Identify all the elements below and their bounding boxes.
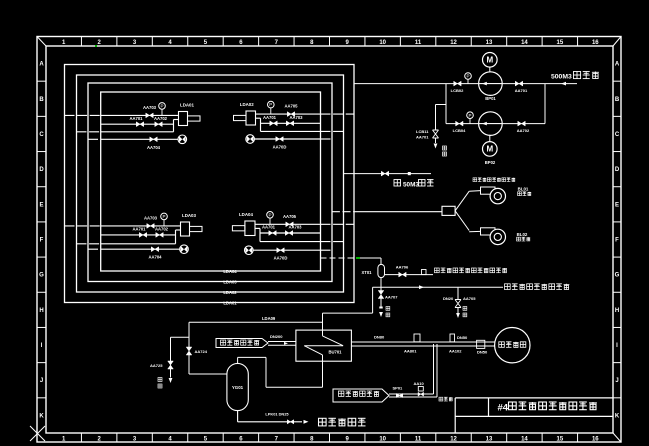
svg-text:P: P: [268, 212, 271, 217]
wire fuel pipe 1: [256, 113, 321, 115]
svg-text:BU701: BU701: [328, 350, 342, 355]
svg-text:G: G: [39, 273, 44, 279]
svg-text:14: 14: [521, 40, 528, 46]
flow arrow: [284, 342, 288, 345]
svg-text:10: 10: [379, 40, 386, 46]
valve AA7x2: [156, 233, 163, 238]
svg-text:11: 11: [415, 40, 422, 46]
pipe ring header LDA01 (outermost): [65, 65, 355, 303]
svg-text:P: P: [468, 113, 471, 118]
grid reference numbers top: [62, 37, 599, 47]
wire fuel pipe 1: [255, 223, 321, 225]
svg-text:F: F: [40, 238, 44, 244]
fan manifold: [442, 206, 455, 215]
wire ignition pipe 4: [254, 138, 321, 140]
valve AA7x2: [286, 121, 293, 126]
fan BL01: [481, 187, 496, 194]
flame igniter: [246, 135, 255, 144]
svg-text:LDA02: LDA02: [223, 290, 237, 295]
label drain header: [505, 284, 511, 290]
valve AA7x1: [270, 121, 277, 126]
burner LDA01: [179, 112, 188, 126]
wire igniter duct horizontal: [389, 393, 434, 395]
svg-text:AA724: AA724: [195, 349, 208, 354]
svg-text:16: 16: [592, 40, 599, 46]
burner group bottom-right: [232, 212, 354, 261]
wire fuel pipe 1: [65, 114, 102, 116]
svg-text:J: J: [40, 378, 43, 384]
label vent2: [463, 307, 467, 311]
reducer: [422, 270, 427, 275]
wire pump suction main: [354, 83, 577, 85]
junction tick: [408, 172, 411, 175]
pipe ring header LDA03: [88, 83, 332, 282]
valve AA7x3: [287, 112, 294, 117]
wire down branch: [188, 322, 190, 374]
wire into vessel: [189, 373, 227, 375]
svg-text:AA703: AA703: [288, 225, 302, 230]
pressure gauge: [268, 101, 275, 108]
svg-text:LCB04: LCB04: [453, 128, 466, 133]
wire hot air duct: [351, 341, 494, 343]
furnace box / ring header LDA04: [101, 92, 321, 271]
exchanger coil: [322, 330, 324, 336]
svg-text:P: P: [162, 214, 165, 219]
valve AA7x1: [269, 231, 276, 236]
flame igniter: [180, 245, 189, 254]
artifact green dash: [356, 257, 360, 259]
valve AA724 (vertical): [186, 347, 192, 355]
wire fuel pipe 2: [261, 122, 321, 124]
pressure gauge: [159, 103, 166, 110]
svg-text:DN20: DN20: [443, 296, 454, 301]
svg-text:H: H: [39, 308, 43, 314]
wire separator drain: [380, 278, 382, 288]
wire ignition pipe 4: [88, 248, 101, 250]
valve AA7x2: [285, 231, 292, 236]
valve LCB04: [456, 121, 463, 126]
svg-text:AA703: AA703: [289, 115, 303, 120]
svg-text:AA701: AA701: [263, 115, 277, 120]
svg-text:P: P: [160, 104, 163, 109]
valve AA705 branch (closed): [457, 287, 459, 299]
svg-text:SP01: SP01: [393, 386, 404, 391]
svg-text:AA102: AA102: [449, 349, 462, 354]
label igniter: [499, 342, 505, 348]
wire to separator: [360, 257, 381, 259]
wire fan Y split: [455, 191, 469, 211]
svg-text:C: C: [39, 132, 44, 138]
valve AA707 (vertical): [380, 287, 382, 291]
svg-text:M: M: [486, 145, 493, 154]
svg-text:AA705: AA705: [463, 296, 476, 301]
grid reference letters left: [37, 62, 46, 420]
svg-text:D: D: [39, 167, 44, 173]
svg-text:16: 16: [592, 437, 599, 443]
svg-text:15: 15: [557, 437, 564, 443]
svg-text:LDA04: LDA04: [223, 269, 237, 274]
valve AA701 pump1 out: [515, 81, 522, 86]
svg-text:LDA03: LDA03: [223, 280, 237, 285]
wire vessel drain: [237, 411, 239, 422]
svg-text:AA70D: AA70D: [274, 256, 288, 261]
label from primary air 2: [333, 389, 389, 402]
svg-text:F: F: [615, 238, 619, 244]
wire fuel pipe 3: [260, 241, 321, 243]
svg-text:J: J: [615, 378, 618, 384]
wire fuel pipe 2: [101, 234, 176, 236]
svg-text:DN200: DN200: [270, 334, 283, 339]
flame igniter: [178, 135, 187, 144]
svg-text:15: 15: [557, 40, 564, 46]
heat exchanger BU701: [296, 330, 352, 361]
label from primary air: [216, 339, 268, 348]
valve SP01: [396, 393, 403, 397]
burner LDA03: [181, 222, 190, 236]
svg-text:H: H: [615, 308, 619, 314]
valve AA7x1: [139, 233, 146, 238]
svg-text:YG01: YG01: [232, 385, 244, 390]
svg-text:AA703: AA703: [144, 215, 158, 220]
svg-text:#4: #4: [498, 403, 509, 414]
wire drain branch: [436, 104, 447, 106]
label to trench: [158, 378, 162, 382]
svg-text:AA704: AA704: [147, 145, 161, 150]
svg-text:DN50: DN50: [477, 350, 488, 355]
valve AA7x4: [277, 248, 284, 253]
wire fuel pipe 3: [77, 243, 102, 245]
svg-text:LDA01: LDA01: [180, 103, 194, 108]
wire drain header: [373, 286, 503, 288]
wire compressed air (dashed): [321, 257, 357, 259]
valve LCB02: [454, 81, 461, 86]
pressure gauge: [267, 212, 274, 219]
valve AA7x4: [151, 247, 158, 252]
flow arrow: [304, 420, 309, 424]
valve AA7x4: [150, 137, 157, 142]
vent stack: [414, 334, 420, 342]
svg-text:AA70D: AA70D: [273, 145, 287, 150]
wire pump2 line: [446, 123, 545, 125]
pump BP01: [479, 72, 503, 96]
burner group top-left: [65, 103, 201, 150]
pressure gauge: [161, 213, 168, 220]
filter stack: [418, 387, 423, 392]
svg-text:LDA04: LDA04: [239, 212, 253, 217]
wire return to 50M3 tank: [344, 173, 432, 175]
svg-text:50M3: 50M3: [403, 182, 419, 189]
svg-text:AA703: AA703: [143, 105, 157, 110]
svg-text:11: 11: [415, 437, 422, 443]
wire fuel pipe 1: [65, 225, 102, 227]
wire right riser: [544, 84, 546, 124]
label return 50M3: [394, 180, 401, 187]
svg-text:13: 13: [486, 437, 493, 443]
svg-text:M: M: [486, 56, 493, 65]
svg-text:K: K: [39, 413, 44, 419]
svg-text:E: E: [39, 202, 43, 208]
svg-text:12: 12: [450, 40, 457, 46]
wire fuel pipe 3: [77, 131, 102, 133]
svg-text:LDA09: LDA09: [262, 316, 276, 321]
svg-text:BL01: BL01: [518, 187, 529, 192]
burner group bottom-left: [65, 213, 203, 260]
svg-text:P: P: [466, 74, 469, 79]
svg-text:AA704: AA704: [148, 255, 162, 260]
junction tick: [450, 334, 455, 342]
svg-text:LDA03: LDA03: [182, 213, 196, 218]
svg-text:AA701: AA701: [262, 225, 276, 230]
svg-text:AA707: AA707: [385, 295, 398, 300]
svg-text:10: 10: [379, 437, 386, 443]
svg-text:AA702: AA702: [155, 227, 169, 232]
wire riser to pump 2: [445, 84, 447, 124]
valve AA7x3: [286, 222, 293, 227]
pump BP02: [479, 112, 503, 136]
pipe ring header LDA02: [77, 75, 344, 292]
grid reference numbers bottom: [62, 433, 599, 443]
label note: [439, 397, 443, 401]
label compressed air header: [435, 268, 440, 273]
svg-text:B: B: [39, 97, 44, 103]
wire primary air duct: [268, 341, 296, 343]
wire fan suction: [332, 211, 354, 213]
drain arrow: [434, 144, 438, 149]
svg-text:AA705: AA705: [284, 104, 298, 109]
svg-text:E: E: [615, 202, 619, 208]
svg-text:13: 13: [486, 40, 493, 46]
grid reference letters right: [613, 62, 621, 420]
valve AA706: [399, 272, 406, 277]
wire to exchanger: [372, 287, 374, 313]
burner group top-right: [234, 101, 355, 149]
valve AA7x2: [155, 122, 162, 127]
drain arrow: [379, 307, 382, 309]
valve AA725 (vertical): [168, 361, 174, 369]
svg-text:AA706: AA706: [396, 265, 409, 270]
svg-text:LDA01: LDA01: [223, 301, 237, 306]
svg-text:AA705: AA705: [283, 214, 297, 219]
svg-text:BP01: BP01: [485, 96, 496, 101]
wire air branch: [385, 274, 434, 276]
valve AA7x1: [136, 122, 143, 127]
title block: [455, 397, 613, 399]
svg-text:AA10: AA10: [414, 381, 425, 386]
valve AA7x4: [276, 137, 283, 142]
pressure gauge pump1: [465, 73, 472, 80]
pressure gauge pump2: [467, 112, 474, 119]
flow arrow: [419, 285, 424, 289]
svg-text:14: 14: [521, 437, 528, 443]
valve AA702 pump2 out: [518, 121, 525, 126]
wire riser: [259, 228, 261, 241]
wire riser: [260, 118, 262, 131]
motor M2: [483, 142, 498, 157]
label cooling fans: [473, 178, 477, 182]
separator XT01: [378, 264, 385, 277]
svg-text:AA701: AA701: [515, 88, 528, 93]
svg-text:DN50: DN50: [457, 335, 468, 340]
wire ignition pipe 4: [253, 249, 321, 251]
svg-text:500M3: 500M3: [551, 74, 572, 81]
drain arrow: [169, 378, 173, 383]
flow arrow: [561, 82, 566, 86]
wire fuel pipe 3: [261, 130, 321, 132]
inline component: [477, 340, 485, 348]
svg-text:LCB11: LCB11: [416, 129, 429, 134]
fan BL02: [481, 228, 496, 235]
svg-text:AA702: AA702: [517, 128, 530, 133]
wire riser: [175, 230, 177, 244]
svg-text:12: 12: [450, 437, 457, 443]
svg-text:AA725: AA725: [150, 363, 163, 368]
burner LDA04: [245, 221, 255, 236]
wire fuel pipe 2: [101, 123, 174, 125]
wire riser: [173, 120, 175, 132]
svg-text:D: D: [615, 167, 620, 173]
svg-text:AA701: AA701: [416, 135, 429, 140]
label drain: [443, 146, 447, 150]
wire ignition pipe 4: [88, 138, 101, 140]
igniter burner: [495, 328, 530, 363]
wire igniter duct vertical: [433, 344, 435, 394]
svg-text:A: A: [39, 62, 44, 68]
svg-text:AA801: AA801: [404, 349, 417, 354]
artifact green dot: [95, 45, 97, 47]
wire drain branch2: [171, 336, 190, 338]
svg-text:K: K: [615, 413, 620, 419]
svg-text:LCB02: LCB02: [451, 88, 464, 93]
svg-text:BL02: BL02: [517, 232, 528, 237]
svg-text:B: B: [615, 97, 620, 103]
label vent: [386, 307, 390, 311]
svg-text:BP02: BP02: [485, 160, 496, 165]
burner LDA02: [246, 111, 256, 125]
svg-text:G: G: [615, 273, 620, 279]
motor M1: [483, 53, 498, 68]
svg-text:A: A: [615, 62, 620, 68]
valve AA7x3: [146, 113, 153, 118]
svg-text:XT01: XT01: [362, 270, 373, 275]
svg-text:AA702: AA702: [154, 116, 168, 121]
svg-text:LDA02: LDA02: [240, 102, 254, 107]
valve return: [381, 171, 388, 176]
flame igniter: [245, 246, 254, 255]
wire fuel pipe 2: [260, 232, 321, 234]
wire vessel top: [237, 357, 239, 363]
valve AA7x3: [147, 224, 154, 229]
svg-text:LPK01 DN25: LPK01 DN25: [265, 412, 289, 417]
svg-text:DN80: DN80: [374, 335, 385, 340]
wire LDA09: [189, 321, 323, 323]
svg-text:C: C: [615, 132, 620, 138]
label drain to trench: [319, 418, 327, 426]
svg-text:P: P: [269, 102, 272, 107]
svg-text:AA701: AA701: [132, 227, 146, 232]
vessel YG01: [227, 363, 248, 410]
valve LCB11 (closed): [433, 130, 439, 138]
svg-text:AA701: AA701: [129, 116, 143, 121]
wire exchanger outlet: [322, 361, 324, 387]
